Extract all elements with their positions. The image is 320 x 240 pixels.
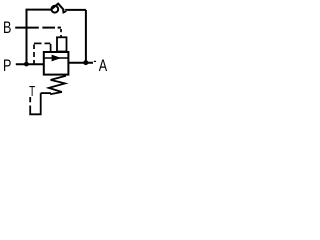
svg-text:A: A	[99, 56, 107, 75]
svg-text:B: B	[3, 18, 11, 37]
svg-text:T: T	[29, 83, 35, 99]
svg-text:P: P	[3, 56, 11, 75]
